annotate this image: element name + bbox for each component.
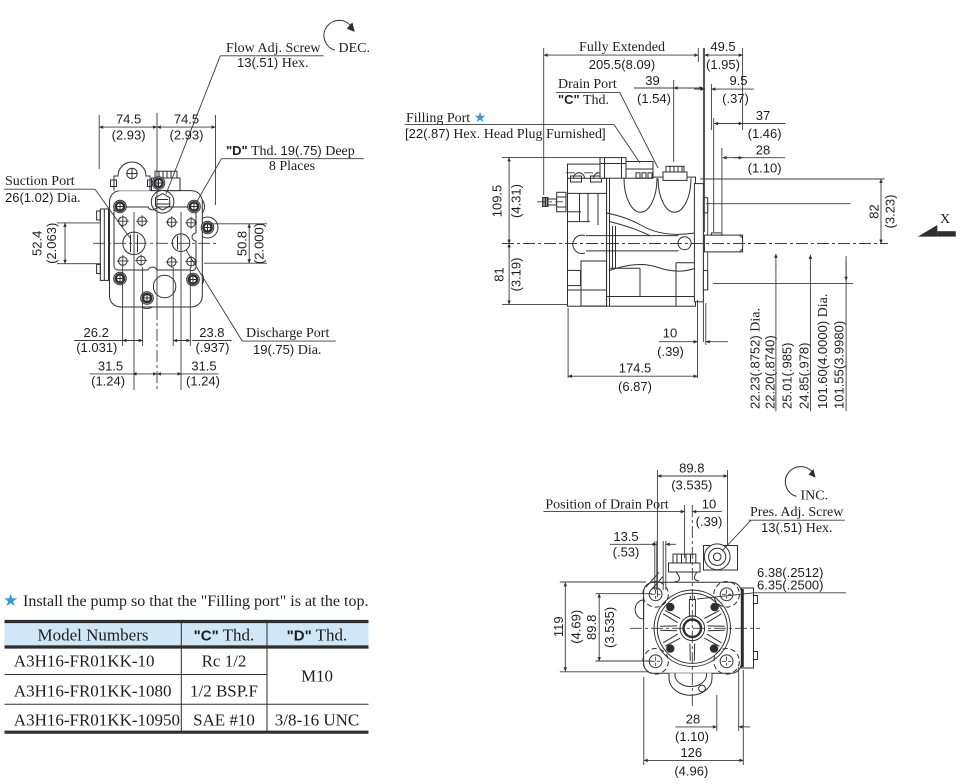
svg-text:6.35(.2500): 6.35(.2500): [757, 578, 824, 593]
front view: discharge port bore: [172, 234, 190, 252]
label Pres. Adj. Screw with leader: [722, 505, 845, 551]
svg-text:A3H16-FR01KK-10950: A3H16-FR01KK-10950: [14, 711, 180, 730]
svg-text:50.8: 50.8: [235, 231, 250, 256]
svg-text:1/2 BSP.F: 1/2 BSP.F: [190, 682, 258, 701]
label Discharge Port with leader: [186, 250, 336, 358]
dim 39: extension line, dimension line and text: [634, 73, 703, 162]
rear view: pressure adjusting screw boss: [704, 544, 738, 570]
svg-text:52.4: 52.4: [30, 231, 45, 256]
dim 23.8: line and text: [173, 325, 231, 355]
dim 89.8 top: extension lines: [657, 470, 727, 597]
side view: left trunnion bump: [573, 235, 585, 253]
svg-text:81: 81: [492, 267, 507, 281]
label Filling Port with star and leader: [405, 111, 640, 163]
model table: row 1: [14, 652, 247, 671]
svg-text:13.5: 13.5: [613, 529, 638, 544]
svg-text:10: 10: [702, 497, 716, 512]
dim 89.8 left: dimension line and rotated text: [584, 594, 617, 661]
dim 174.5: extension, dimension line and text: [568, 308, 697, 394]
dia label 101.60/101.55 rotated with leader arrow: [815, 256, 847, 411]
front view: bolt on screw block: [152, 177, 165, 190]
svg-text:(3.535): (3.535): [602, 607, 617, 648]
dim 82: dimension line and rotated text: [867, 179, 898, 244]
svg-text:Model Numbers: Model Numbers: [38, 626, 149, 645]
dim 31.5 right: line and text: [157, 358, 220, 388]
svg-text:(.53): (.53): [613, 545, 640, 560]
svg-text:A3H16-FR01KK-10: A3H16-FR01KK-10: [14, 652, 155, 671]
svg-text:(1.10): (1.10): [675, 729, 709, 744]
dim 50.8: dimension line and rotated text: [235, 223, 267, 264]
svg-text:(4.96): (4.96): [674, 763, 708, 778]
svg-text:[22(.87) Hex. Head Plug Furnis: [22(.87) Hex. Head Plug Furnished]: [405, 126, 606, 142]
dia label 25.01/24.85 rotated with leader arrow: [780, 255, 812, 411]
svg-text:9.5: 9.5: [729, 73, 747, 88]
front view: suction port bore: [123, 232, 145, 254]
svg-text:31.5: 31.5: [98, 358, 123, 373]
dim 26.2: line and text: [74, 325, 143, 355]
svg-text:28: 28: [686, 711, 700, 726]
svg-text:82: 82: [867, 204, 882, 218]
svg-text:(3.23): (3.23): [883, 195, 898, 229]
svg-text:(1.10): (1.10): [748, 161, 782, 176]
svg-text:174.5: 174.5: [619, 361, 652, 376]
svg-text:49.5: 49.5: [710, 39, 735, 54]
side view: cradle scallop curves: [624, 178, 691, 212]
svg-text:22.23(.8752) Dia.: 22.23(.8752) Dia.: [748, 308, 764, 409]
svg-text:10: 10: [663, 326, 677, 341]
rotation arrow INC.: [785, 467, 828, 504]
front view: corner mounting lobes behind body: [110, 196, 219, 309]
front view: vertical centerline below body: [156, 308, 158, 390]
svg-text:★Install the pump so that the: ★Install the pump so that the "Filling p…: [3, 591, 368, 610]
svg-text:Position of Drain Port: Position of Drain Port: [545, 498, 668, 513]
dim 10 side: arrows and text: [657, 300, 728, 378]
front view: flow adjusting screw hex plug: [151, 191, 174, 214]
svg-text:Rc 1/2: Rc 1/2: [202, 652, 247, 671]
svg-text:37: 37: [756, 108, 770, 123]
dim 89.8 left: extension lines: [596, 594, 653, 661]
dim 13.5: extension lines, arrows and text: [610, 529, 676, 590]
svg-text:"D" Thd. 19(.75) Deep: "D" Thd. 19(.75) Deep: [226, 143, 355, 159]
svg-text:(.937): (.937): [196, 340, 230, 355]
dim 37: arrows and text: [714, 108, 786, 232]
dim 49.5: dimension line and text: [704, 39, 742, 130]
svg-text:8 Places: 8 Places: [269, 159, 315, 174]
side view: pilot top extension line: [706, 203, 851, 205]
rear view: flange circle with spokes: [654, 590, 730, 666]
svg-text:Fully Extended: Fully Extended: [579, 40, 665, 55]
side view: pilot bottom extension line: [713, 283, 853, 285]
svg-text:Discharge Port: Discharge Port: [246, 326, 329, 341]
side view: left valve block: [566, 164, 609, 306]
svg-text:25.01(.985): 25.01(.985): [780, 343, 795, 410]
svg-text:Drain Port: Drain Port: [558, 77, 617, 92]
side view: drain port block on top: [663, 166, 687, 180]
front view: bottom drain bore: [153, 275, 175, 297]
dim Fully Extended 205.5: extension and dimension lines: [544, 40, 699, 72]
front view: 8 thread holes D: [117, 215, 197, 268]
label Drain Port C Thd. with leader: [556, 77, 658, 168]
front view: corner socket bolts: [114, 200, 214, 304]
svg-text:(.39): (.39): [657, 344, 684, 359]
dim 74.5 left: dimension line and text: [99, 112, 157, 143]
dim 28: arrows and text: [722, 143, 785, 233]
svg-text:DEC.: DEC.: [339, 41, 371, 56]
svg-text:109.5: 109.5: [490, 185, 505, 218]
svg-text:89.8: 89.8: [679, 460, 704, 475]
svg-text:(1.24): (1.24): [91, 373, 125, 388]
svg-text:(1.031): (1.031): [76, 340, 117, 355]
svg-text:M10: M10: [301, 667, 333, 686]
svg-text:"C" Thd.: "C" Thd.: [558, 92, 609, 108]
side view: mounting face extension line: [703, 48, 704, 342]
front view: left suction flange plate: [97, 209, 109, 280]
model table: header row text: [38, 626, 348, 645]
svg-text:74.5: 74.5: [116, 112, 141, 127]
svg-text:(6.87): (6.87): [618, 379, 652, 394]
svg-text:(.39): (.39): [696, 514, 723, 529]
model table: header background: [5, 623, 369, 647]
svg-text:22.20(.8740): 22.20(.8740): [763, 335, 778, 409]
rotation arrow DEC.: [324, 20, 370, 56]
side view: top body extension line for dim 82: [700, 178, 885, 180]
side view: rear mounting flange: [694, 184, 707, 302]
front view: inner valve plate: [114, 206, 196, 270]
front view: top-left mounting ear: [111, 162, 154, 191]
dim 119: extension lines: [560, 582, 648, 672]
label Flow Adj. Screw with leader: [166, 41, 324, 194]
dim 52.4: dimension line and rotated text: [30, 223, 66, 264]
svg-text:Flow Adj. Screw: Flow Adj. Screw: [226, 41, 321, 56]
dim 81: dimension line and rotated text: [492, 244, 568, 305]
rear view: four socket bolts on flange circle: [667, 603, 719, 652]
note: install pump with filling port at top: [3, 591, 368, 610]
rear view: shaft end circles with keyway: [680, 600, 705, 641]
side view: pressure adjusting screw at left: [537, 192, 566, 212]
view direction arrow X: [918, 212, 956, 237]
svg-text:89.8: 89.8: [584, 615, 599, 640]
front view: discharge port axis line: [180, 212, 182, 390]
svg-text:101.55(3.9980): 101.55(3.9980): [832, 321, 847, 409]
side view: shaft with key: [704, 233, 742, 252]
rear view: body square: [644, 582, 742, 673]
svg-text:23.8: 23.8: [199, 325, 224, 340]
side view: main pump casing: [607, 177, 696, 306]
svg-text:Pres. Adj. Screw: Pres. Adj. Screw: [750, 505, 844, 520]
rear view: spoke ribs: [660, 596, 725, 661]
rear view: bottom protrusion: [669, 673, 712, 695]
svg-text:SAE #10: SAE #10: [193, 711, 255, 730]
dim 50.8: extension lines: [204, 224, 267, 263]
svg-text:3/8-16 UNC: 3/8-16 UNC: [275, 711, 360, 730]
svg-text:13(.51) Hex.: 13(.51) Hex.: [237, 55, 309, 71]
front view: top screw block: [152, 171, 181, 190]
rear view: left side lobe bumps: [635, 600, 644, 619]
svg-text:(1.24): (1.24): [186, 373, 220, 388]
rear view: horizontal centerline: [630, 627, 760, 629]
dia label 22.23/22.20 rotated with leader arrow: [748, 254, 778, 411]
svg-text:126: 126: [680, 745, 702, 760]
svg-text:26(1.02) Dia.: 26(1.02) Dia.: [5, 190, 81, 206]
dim 9.5: arrows and text: [694, 73, 754, 130]
dim 126: extension lines, dimension line and text: [644, 670, 744, 778]
svg-text:(3.19): (3.19): [509, 258, 524, 292]
front view: suction port axis line: [133, 212, 135, 390]
side view: horizontal centerline: [502, 243, 888, 245]
front view: pump body outline: [110, 191, 203, 307]
svg-text:119: 119: [551, 616, 566, 637]
dim 10 rear: extension lines, arrow and text: [685, 497, 723, 559]
dim 119: dimension line and rotated text: [551, 582, 584, 671]
svg-text:(2.93): (2.93): [112, 128, 146, 143]
model table: outer thick borders: [5, 622, 369, 733]
front view: vertical center extension line: [156, 113, 158, 308]
svg-text:31.5: 31.5: [191, 358, 216, 373]
svg-text:(3.535): (3.535): [671, 477, 712, 492]
side view: shaft through-case lines: [586, 236, 679, 251]
dim 28 rear: extension lines, arrows and text: [675, 667, 750, 744]
dim 74.5 left: extension lines: [99, 115, 215, 205]
rear view: drain port stub on top: [669, 554, 701, 582]
svg-text:13(.51) Hex.: 13(.51) Hex.: [761, 520, 833, 536]
model table: row and column lines: [5, 623, 369, 731]
model table: row 2 and merged M10 cell: [14, 667, 333, 701]
side view: filling port cap on top: [600, 158, 653, 179]
dim extension lines below front view: [123, 266, 191, 346]
svg-text:19(.75) Dia.: 19(.75) Dia.: [253, 342, 321, 358]
svg-text:(.37): (.37): [722, 91, 749, 106]
svg-text:A3H16-FR01KK-1080: A3H16-FR01KK-1080: [14, 682, 172, 701]
rear view: vertical centerline: [691, 505, 693, 706]
label key width 6.38/6.35 with leader: [697, 565, 846, 599]
svg-text:(2.063): (2.063): [44, 223, 59, 264]
side view: shaft root circle: [678, 237, 691, 250]
svg-text:X: X: [940, 212, 950, 227]
svg-text:28: 28: [756, 143, 770, 158]
svg-text:(1.54): (1.54): [637, 91, 671, 106]
front view: horizontal centerline: [93, 242, 218, 244]
label Suction Port with leader: [4, 174, 130, 238]
label Position of Drain Port with leader arrow: [543, 498, 684, 513]
svg-text:(2.000): (2.000): [252, 223, 267, 264]
svg-text:INC.: INC.: [801, 489, 829, 504]
svg-text:(4.69): (4.69): [569, 610, 584, 644]
svg-text:205.5(8.09): 205.5(8.09): [589, 57, 656, 72]
svg-text:Filling Port ★: Filling Port ★: [406, 111, 486, 126]
svg-text:39: 39: [645, 73, 659, 88]
rear view: top-left corner chamfer lines: [646, 573, 663, 590]
svg-text:101.60(4.0000) Dia.: 101.60(4.0000) Dia.: [815, 294, 831, 409]
svg-text:(4.31): (4.31): [509, 184, 524, 218]
dim 31.5 left: line and text: [90, 358, 157, 388]
dim 109.5: dimension line and rotated text: [490, 157, 601, 243]
side view: left extension line from screw tip: [543, 48, 545, 195]
svg-text:24.85(.978): 24.85(.978): [797, 343, 812, 410]
svg-text:(2.93): (2.93): [170, 128, 204, 143]
label D Thd. 8 Places with leader: [196, 143, 364, 204]
svg-text:(1.46): (1.46): [748, 126, 782, 141]
rear view: corner bolt holes with dashed bosses: [643, 582, 740, 675]
svg-text:"C" Thd.: "C" Thd.: [194, 626, 255, 645]
dim 89.8 top: dimension line and text: [657, 460, 727, 492]
dim 52.4: extension lines: [57, 223, 100, 264]
svg-text:"D" Thd.: "D" Thd.: [287, 626, 348, 645]
dim 74.5 right: dimension line and text: [157, 112, 216, 143]
svg-text:26.2: 26.2: [84, 325, 109, 340]
model table: row 3: [14, 711, 359, 730]
svg-text:(1.95): (1.95): [706, 57, 740, 72]
svg-text:Suction Port: Suction Port: [5, 174, 75, 189]
rear view: right flange plate: [742, 588, 758, 668]
